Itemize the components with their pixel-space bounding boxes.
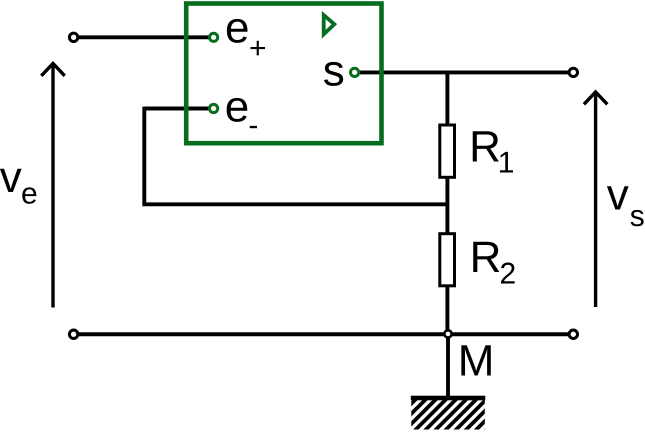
- svg-text:e: e: [21, 177, 38, 210]
- arrow v_e: [41, 64, 64, 308]
- pin s: [351, 68, 359, 76]
- resistor R1: [440, 125, 455, 177]
- wire: feedback vertical: [142, 107, 146, 205]
- terminal: input top-left: [69, 33, 77, 41]
- wire: feedback horizontal to divider node: [142, 202, 447, 206]
- wire: bottom rail: [76, 332, 569, 336]
- wire: s output to right terminal: [360, 70, 568, 74]
- arrow v_s: [584, 92, 607, 307]
- pin e-: [210, 104, 218, 112]
- svg-text:+: +: [249, 32, 267, 65]
- op-amp U1 box: [186, 4, 381, 144]
- terminal: input bottom-left: [69, 330, 77, 338]
- svg-text:s: s: [630, 200, 645, 233]
- svg-text:v: v: [607, 170, 629, 219]
- wire: e- pin leftward: [144, 107, 209, 111]
- svg-text:1: 1: [498, 147, 515, 180]
- svg-text:2: 2: [500, 258, 517, 291]
- svg-text:e: e: [225, 83, 249, 132]
- svg-text:v: v: [0, 153, 22, 202]
- pin e+: [210, 33, 218, 41]
- op-amp triangle symbol: [324, 15, 335, 34]
- resistor R2: [440, 234, 455, 286]
- wire: output node down through R1 R2 to node M: [445, 72, 449, 334]
- terminal: output bottom-right: [569, 330, 577, 338]
- svg-text:e: e: [225, 4, 249, 53]
- terminal: output top-right: [569, 68, 577, 76]
- wire: node M to ground: [446, 334, 450, 397]
- svg-text:R: R: [470, 233, 502, 282]
- svg-text:R: R: [469, 122, 501, 171]
- wire: left input to e+: [76, 35, 209, 39]
- svg-text:s: s: [323, 47, 345, 96]
- svg-text:M: M: [458, 337, 495, 386]
- svg-text:-: -: [248, 109, 258, 142]
- node M junction: [444, 330, 451, 337]
- ground: [383, 396, 520, 432]
